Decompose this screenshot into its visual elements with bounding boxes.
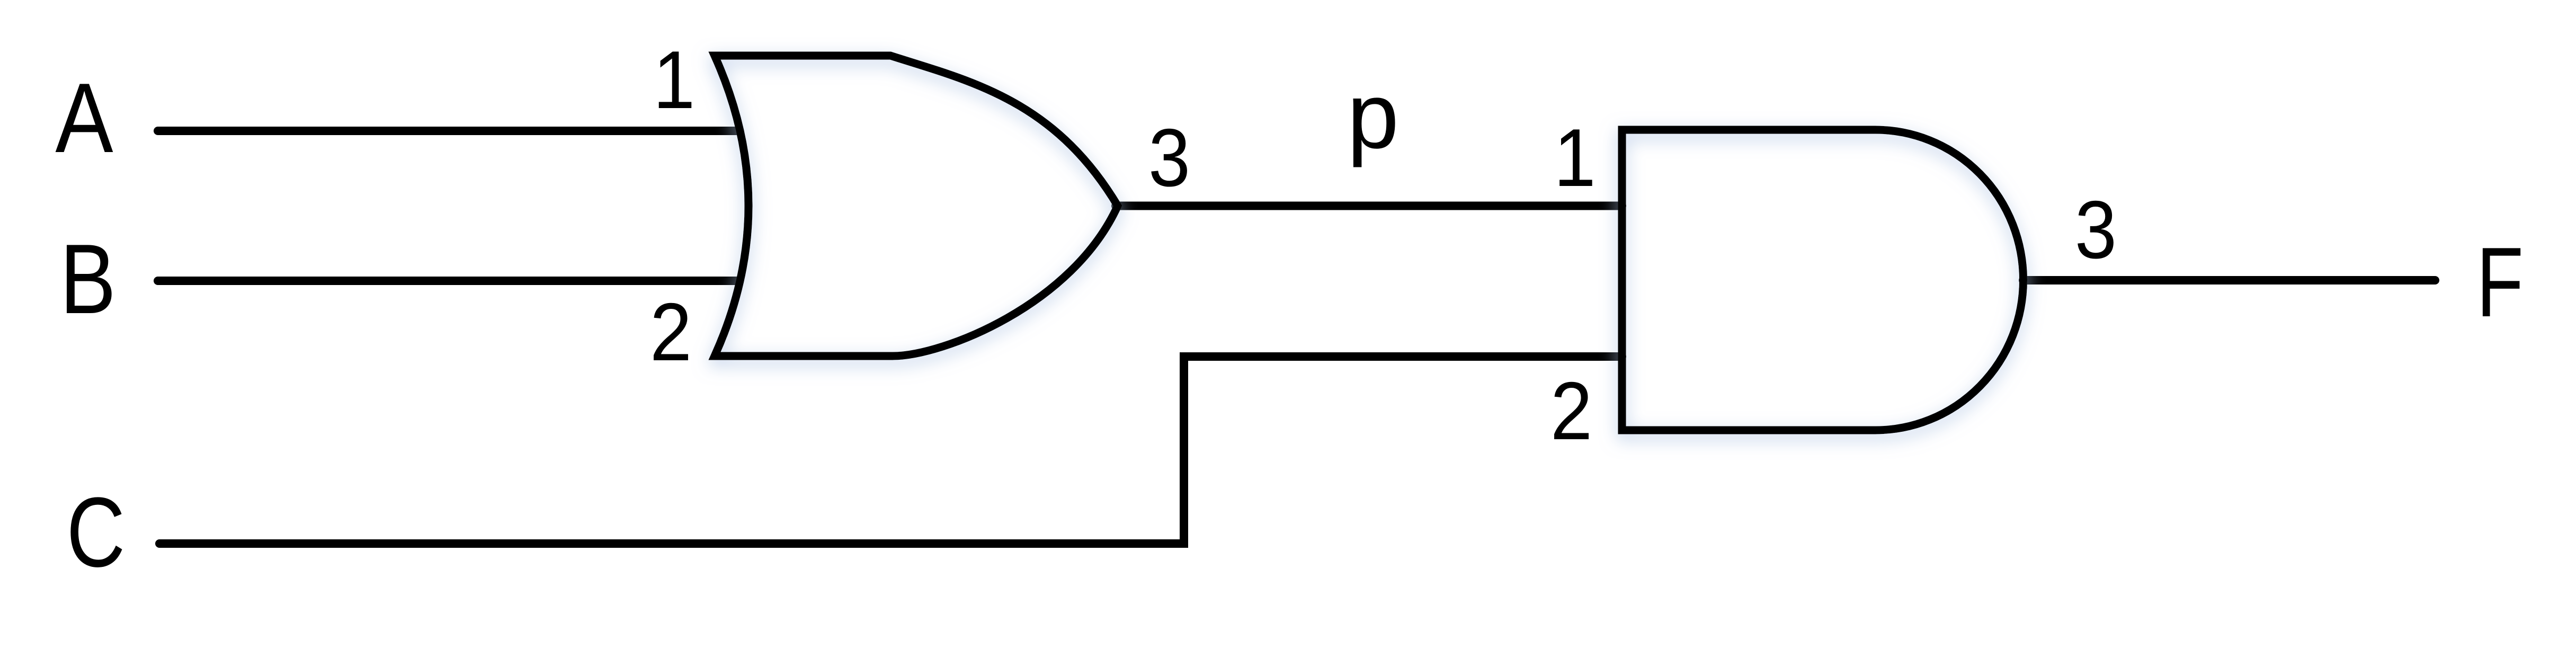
wire F output [2023, 276, 2435, 285]
svg-text:1: 1 [653, 33, 695, 126]
svg-text:2: 2 [1550, 364, 1592, 457]
svg-text:3: 3 [2075, 183, 2117, 275]
svg-text:A: A [55, 63, 113, 174]
or-gate U1 [715, 56, 1118, 356]
wire B to OR pin 2 [158, 277, 739, 285]
svg-text:p: p [1347, 64, 1399, 168]
svg-text:F: F [2476, 227, 2524, 338]
svg-text:B: B [60, 224, 116, 334]
wire C to AND pin 2 [159, 357, 1622, 544]
svg-text:3: 3 [1148, 111, 1190, 203]
wire A to OR pin 1 [158, 127, 739, 135]
svg-text:1: 1 [1554, 111, 1595, 203]
svg-text:C: C [67, 477, 126, 588]
and-gate U2 [1622, 130, 2024, 430]
wire p: OR output to AND pin 1 [1116, 202, 1622, 210]
svg-text:2: 2 [650, 286, 692, 378]
